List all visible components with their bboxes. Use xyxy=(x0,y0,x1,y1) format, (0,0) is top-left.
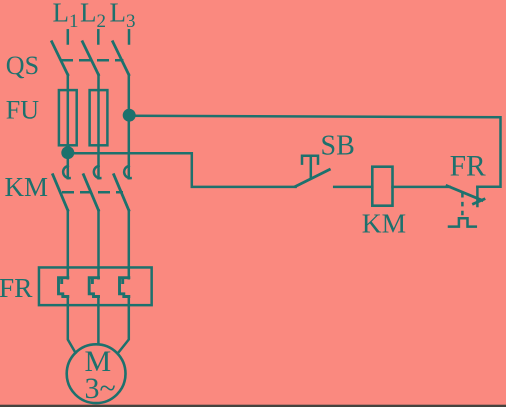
wire phase3 KM to FR box xyxy=(128,210,131,278)
contactor KM pole3 blade xyxy=(114,175,129,211)
scanner edge artifact bottom xyxy=(0,405,506,407)
contactor KM pole1 fixed contact stem xyxy=(67,153,70,179)
wire control top rail from node A xyxy=(129,116,501,187)
wire phase2 QS through fuse down xyxy=(97,75,100,179)
contactor KM pole1 blade xyxy=(53,175,68,211)
FR heater element phase3 xyxy=(120,278,129,297)
fuse FU phase2 xyxy=(90,90,108,145)
svg-text:FR: FR xyxy=(450,150,486,182)
svg-text:QS: QS xyxy=(6,51,39,80)
pushbutton SB stem xyxy=(310,156,313,178)
fuse FU phase1 xyxy=(59,90,77,145)
wire KM coil to FR contact xyxy=(393,186,450,189)
pushbutton SB cap xyxy=(302,156,318,164)
QS mechanical linkage dashed line xyxy=(61,59,123,62)
wire phase1 FR box to motor xyxy=(68,297,76,353)
FR heater element phase1 xyxy=(59,278,68,297)
switch QS pole 1 blade xyxy=(52,42,68,75)
KM mechanical linkage dashed line xyxy=(62,191,123,194)
switch QS pole 3 blade xyxy=(113,42,129,75)
wire from node B to control drop xyxy=(68,153,296,187)
FR NC contact blade xyxy=(447,186,482,201)
node L1 terminal tick xyxy=(67,30,70,43)
svg-text:FR: FR xyxy=(0,272,33,303)
svg-text:KM: KM xyxy=(362,207,406,238)
FR heater element phase2 xyxy=(89,278,98,297)
coil KM rectangle xyxy=(372,167,392,206)
pushbutton SB blade xyxy=(296,170,330,187)
wire phase2 KM to FR box xyxy=(97,210,100,278)
motor M circle xyxy=(67,344,126,403)
wire phase3 QS down to KM contact xyxy=(128,75,131,179)
thermal relay FR box xyxy=(39,267,152,305)
switch QS pole 2 blade xyxy=(83,42,99,75)
contactor KM pole2 blade xyxy=(84,175,99,211)
node L2 terminal tick xyxy=(97,30,100,43)
FR NC contact stop bar xyxy=(474,199,485,204)
wire phase1 KM to FR box xyxy=(67,210,70,278)
wire phase3 FR box to motor xyxy=(118,297,129,353)
node L3 terminal tick xyxy=(128,30,131,43)
wire phase1 QS to fuse to node B xyxy=(67,75,70,153)
svg-text:FU: FU xyxy=(6,96,39,125)
contactor KM pole2 fixed contact arc xyxy=(94,166,100,178)
contactor KM pole3 fixed contact arc xyxy=(124,166,130,178)
svg-text:3~: 3~ xyxy=(85,372,116,405)
contactor KM pole1 fixed contact arc xyxy=(63,166,69,178)
node B junction dot xyxy=(61,146,74,159)
node A junction dot xyxy=(123,109,136,122)
FR thermal actuator bump xyxy=(449,218,476,226)
FR NC contact terminal xyxy=(476,187,479,206)
wire phase2 FR box to motor xyxy=(97,297,100,345)
svg-text:SB: SB xyxy=(321,131,355,162)
wire SB to KM coil xyxy=(334,186,372,189)
svg-text:KM: KM xyxy=(5,172,49,202)
FR contact actuator dashed link xyxy=(461,193,464,215)
